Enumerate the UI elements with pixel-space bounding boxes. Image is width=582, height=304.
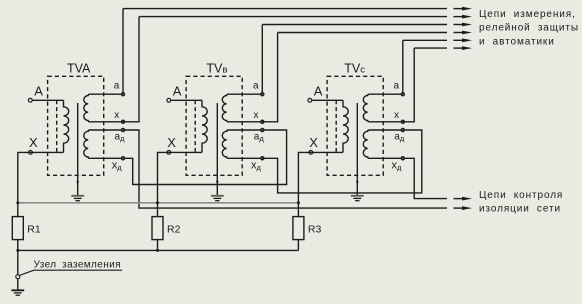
node: core junction mark (77, 181, 79, 183)
svg-text:изоляции сети: изоляции сети (479, 204, 561, 215)
svg-text:ад: ад (254, 132, 265, 144)
wire: insulation control line 2 (from ad of TVA) (123, 130, 447, 208)
terminal A of TVA (28, 98, 32, 102)
arrow: measurement output 3 (454, 24, 465, 26)
arrow: measurement output 1 (454, 8, 465, 10)
svg-text:ад: ад (394, 132, 405, 144)
terminal ad of TVс (401, 128, 404, 131)
transformer T1 (TVA) (18, 9, 139, 217)
primary winding TVA (64, 100, 69, 152)
terminal xd of TVв (261, 157, 264, 160)
wire: link xd(TVA) to ad(TVv) (123, 130, 287, 185)
wire A lead (171, 99, 202, 101)
svg-text:Цепи контроля: Цепи контроля (479, 190, 563, 201)
wire X lead to resistor branch (18, 152, 64, 216)
node: grounding node circle (16, 275, 20, 279)
wire R2 bottom lead (157, 240, 159, 251)
terminal ad of TVв (261, 128, 264, 131)
terminal A of TVв (167, 98, 171, 102)
svg-text:ад: ад (115, 132, 126, 144)
terminal ad of TVA (121, 128, 124, 131)
arrow: measurement output 4 (454, 32, 465, 34)
svg-text:TVс: TVс (344, 62, 365, 76)
core with ground lead (356, 103, 358, 196)
secondary winding 2 (ad-xd) of TVс (363, 130, 403, 158)
wire: insulation control line 1 (from xd of TVc) (403, 158, 447, 198)
svg-text:х: х (114, 110, 119, 121)
enclosure dashed box TVA (48, 76, 104, 175)
resistor R1 (12, 217, 23, 240)
wire A lead (312, 99, 343, 101)
terminal X of TVA (29, 151, 33, 155)
svg-text:A: A (34, 83, 43, 98)
label: insulation control text (479, 190, 563, 215)
svg-text:а: а (253, 80, 259, 91)
wire: resistor common rail (18, 249, 299, 251)
svg-text:х: х (254, 110, 259, 121)
auxiliary dashed line (screen) (335, 100, 337, 152)
arrow: measurement output 5 (454, 39, 465, 41)
auxiliary dashed line (screen) (56, 100, 58, 152)
wire X lead to resistor branch (158, 152, 203, 216)
terminal x of TVв (261, 120, 264, 123)
svg-text:а: а (394, 80, 400, 91)
core with ground lead (216, 103, 218, 196)
svg-text:X: X (309, 135, 318, 150)
wire x to measurement line 4 (262, 33, 277, 122)
transformer T3 (TVс) (298, 40, 414, 216)
svg-text:X: X (29, 135, 38, 150)
wire R3 bottom lead (297, 240, 299, 251)
secondary winding 2 (ad-xd) of TVA (84, 130, 123, 158)
terminal x of TVA (121, 120, 124, 123)
arrow: measurement output 2 (454, 16, 465, 18)
wire a to measurement line 1 (122, 9, 124, 93)
terminal x of TVс (401, 120, 404, 123)
svg-text:TVв: TVв (206, 62, 227, 76)
primary winding TVс (343, 100, 348, 152)
arrow: insulation control output 1 (454, 198, 465, 200)
wire: measurement bus line 6 (414, 47, 447, 49)
svg-text:R2: R2 (167, 223, 181, 235)
secondary winding 1 (a-x) of TVв (222, 94, 262, 122)
wire R1 bottom lead (17, 240, 19, 251)
terminal a of TVв (261, 93, 264, 96)
node: core junction mark (356, 181, 358, 183)
label: measurement circuits text (479, 9, 579, 47)
wire: ground node lead (17, 250, 19, 274)
svg-text:TVA: TVA (67, 62, 91, 76)
svg-text:X: X (167, 135, 176, 150)
ground symbol: earth electrode (11, 289, 24, 291)
node: rail junction R2 (156, 249, 159, 252)
wire: link xd(TVv) to ad(TVc) (262, 130, 422, 193)
transformer T2 (TVв) (158, 25, 278, 217)
ground symbol of TVA (71, 195, 84, 197)
wire a to measurement line 3 (261, 25, 263, 93)
terminal xd of TVс (401, 157, 404, 160)
node: core junction mark (216, 181, 218, 183)
wire x to measurement line 2 (123, 17, 139, 122)
wire: neutral bus (gray) (18, 202, 299, 204)
terminal a of TVс (401, 93, 404, 96)
wire: measurement bus line 5 (403, 39, 447, 41)
wire x to measurement line 6 (403, 48, 414, 122)
node: neutral junction at R1 (16, 201, 19, 204)
ground symbol of TVв (211, 195, 224, 197)
svg-text:A: A (173, 83, 182, 98)
enclosure dashed box TVс (327, 76, 383, 175)
terminal A of TVс (308, 98, 312, 102)
svg-text:Узел заземления: Узел заземления (34, 259, 121, 270)
secondary winding 1 (a-x) of TVA (84, 94, 123, 122)
svg-text:х: х (394, 110, 399, 121)
label: grounding node callout leader (20, 270, 122, 275)
arrow: insulation control output 2 (454, 207, 465, 209)
svg-text:и автоматики: и автоматики (479, 36, 555, 47)
svg-text:R3: R3 (308, 223, 322, 235)
svg-text:Цепи измерения,: Цепи измерения, (479, 9, 576, 20)
core with ground lead (77, 103, 79, 196)
primary winding TVв (202, 100, 207, 152)
secondary winding 1 (a-x) of TVс (363, 94, 402, 122)
secondary winding 2 (ad-xd) of TVв (222, 130, 262, 158)
node: rail junction R1 (16, 249, 19, 252)
terminal xd of TVA (121, 157, 124, 160)
wire: measurement bus line 1 (123, 8, 447, 10)
arrow: measurement output 6 (454, 47, 465, 49)
terminal a of TVA (121, 93, 124, 96)
resistor R3 (293, 217, 304, 240)
wire: node to earth (17, 279, 19, 291)
enclosure dashed box TVв (186, 76, 242, 175)
auxiliary dashed line (screen) (194, 100, 196, 152)
terminal X of TVс (309, 151, 313, 155)
wire: measurement bus line 2 (139, 16, 447, 18)
wire: measurement bus line 4 (278, 32, 447, 34)
node: neutral junction at R3 (297, 201, 300, 204)
terminal X of TVв (167, 151, 171, 155)
svg-text:R1: R1 (27, 223, 41, 235)
wire A lead (32, 99, 63, 101)
svg-text:релейной защиты: релейной защиты (479, 23, 579, 34)
wire: measurement bus line 3 (262, 24, 447, 26)
wire a to measurement line 5 (402, 40, 404, 92)
node: neutral junction at R2 (156, 201, 159, 204)
ground symbol of TVс (351, 195, 364, 197)
svg-text:а: а (114, 80, 120, 91)
svg-text:A: A (314, 83, 323, 98)
resistor R2 (152, 217, 163, 240)
wire X lead to resistor branch (298, 152, 343, 216)
